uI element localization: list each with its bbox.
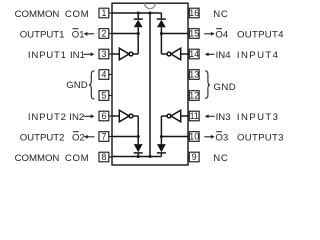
label pins 13,12: GND with brace — [205, 71, 236, 99]
svg-text:15: 15 — [189, 29, 199, 39]
svg-text:14: 14 — [189, 49, 199, 59]
pin 1 box — [99, 8, 112, 18]
diode D4 (output4 to common) — [157, 13, 166, 27]
svg-text:INPUT1: INPUT1 — [28, 50, 67, 61]
svg-text:O1: O1 — [72, 29, 85, 40]
pin 8 box — [99, 152, 112, 162]
svg-text:5: 5 — [101, 91, 106, 101]
svg-text:11: 11 — [190, 111, 199, 121]
svg-text:8: 8 — [101, 152, 106, 162]
wire: top COMMON bus (pin 1) — [112, 12, 161, 14]
notch (pin-1 index semicircle) — [145, 3, 156, 9]
inverter U1c (IN3) — [161, 110, 188, 122]
label pin 6: INPUT2 IN2 (arrow in) — [28, 112, 95, 123]
label pin 15: O4 OUTPUT4 (inverted output, arrow out) — [204, 29, 284, 41]
junction: D1/top bus — [137, 11, 140, 14]
pin 7 box — [99, 132, 112, 142]
junction: pin7 net — [137, 135, 140, 138]
wire: pin 10 output3 net — [161, 116, 188, 144]
svg-text:4: 4 — [101, 70, 106, 80]
pin 15 box — [188, 29, 199, 39]
svg-text:COM: COM — [65, 9, 89, 20]
svg-text:3: 3 — [101, 49, 106, 59]
junction: pin2 net — [137, 32, 140, 35]
pin 14 box — [188, 49, 199, 59]
svg-text:NC: NC — [213, 153, 228, 164]
diode D1 (output1 to common) — [134, 13, 143, 27]
svg-text:INPUT4: INPUT4 — [237, 50, 280, 61]
pin 11 box — [188, 111, 199, 121]
inverter U1b (IN2) — [112, 110, 138, 122]
junction: centre bus/top bus — [148, 11, 151, 14]
svg-text:9: 9 — [192, 152, 197, 162]
junction: centre bus/bottom bus — [148, 155, 151, 158]
svg-text:COMMON: COMMON — [15, 153, 60, 164]
label pin 7: OUTPUT2 O2 (inverted output, arrow out) — [20, 132, 95, 144]
inverter U1a (IN1) — [112, 48, 138, 60]
junction: pin10 net — [160, 135, 163, 138]
pin 4 box — [99, 70, 112, 80]
svg-text:IN1: IN1 — [70, 50, 85, 61]
pin 12 box — [188, 91, 199, 101]
svg-text:OUTPUT4: OUTPUT4 — [237, 29, 284, 40]
svg-text:OUTPUT1: OUTPUT1 — [20, 29, 65, 40]
svg-text:INPUT3: INPUT3 — [237, 112, 280, 123]
label pin 1: COMMON COM — [15, 9, 90, 20]
svg-text:COMMON: COMMON — [15, 9, 60, 20]
svg-text:13: 13 — [189, 70, 199, 80]
svg-text:IN4: IN4 — [216, 50, 232, 61]
svg-text:16: 16 — [189, 8, 199, 18]
label pins 4,5: GND with brace — [66, 71, 94, 99]
svg-text:6: 6 — [101, 111, 106, 121]
pin 16 box — [188, 8, 199, 18]
wire: centre COMMON bus vertical — [149, 13, 151, 157]
wire: pin 7 output2 net — [112, 116, 138, 144]
pin 10 box — [188, 132, 199, 142]
label pin 11: IN3 INPUT3 (arrow in) — [205, 112, 280, 123]
pin 6 box — [99, 111, 112, 121]
svg-text:7: 7 — [101, 132, 106, 142]
svg-text:O3: O3 — [215, 132, 228, 143]
pin 5 box — [99, 91, 112, 101]
inverter U1d (IN4) — [161, 48, 188, 60]
diode D2 (output2 to common) — [134, 144, 143, 156]
svg-text:2: 2 — [101, 29, 106, 39]
IC body U1 — [112, 3, 188, 165]
label pin 3: INPUT1 IN1 (arrow in) — [28, 50, 95, 61]
svg-text:O4: O4 — [215, 29, 228, 40]
svg-text:GND: GND — [214, 82, 237, 93]
label pin 2: OUTPUT1 O1 (inverted output, arrow out) — [20, 29, 95, 41]
svg-text:IN2: IN2 — [69, 112, 84, 123]
pin 2 box — [99, 29, 112, 39]
pin 9 box — [188, 152, 199, 162]
label pin 10: O3 OUTPUT3 (inverted output, arrow out) — [204, 132, 283, 144]
svg-text:INPUT2: INPUT2 — [28, 112, 67, 123]
svg-text:OUTPUT3: OUTPUT3 — [237, 132, 284, 143]
wire: pin 15 output4 net — [161, 27, 188, 54]
svg-text:O2: O2 — [72, 132, 85, 143]
label pin 14: IN4 INPUT4 (arrow in) — [205, 50, 280, 61]
svg-text:IN3: IN3 — [216, 112, 231, 123]
svg-text:GND: GND — [66, 80, 87, 91]
junction: D2/bottom bus — [137, 155, 140, 158]
svg-text:COM: COM — [65, 153, 89, 164]
wire: pin 2 output1 net — [112, 27, 138, 54]
svg-text:12: 12 — [189, 91, 199, 101]
svg-text:NC: NC — [213, 9, 228, 20]
pin 3 box — [99, 49, 112, 59]
label pin 8: COMMON COM — [15, 153, 90, 164]
junction: pin15 net — [160, 32, 163, 35]
wire: bottom COMMON bus (pin 8) — [112, 156, 161, 158]
svg-text:1: 1 — [101, 8, 106, 18]
pin 13 box — [188, 70, 199, 80]
svg-text:10: 10 — [189, 132, 199, 142]
svg-text:OUTPUT2: OUTPUT2 — [20, 132, 65, 143]
diode D3 (output3 to common) — [157, 144, 166, 156]
